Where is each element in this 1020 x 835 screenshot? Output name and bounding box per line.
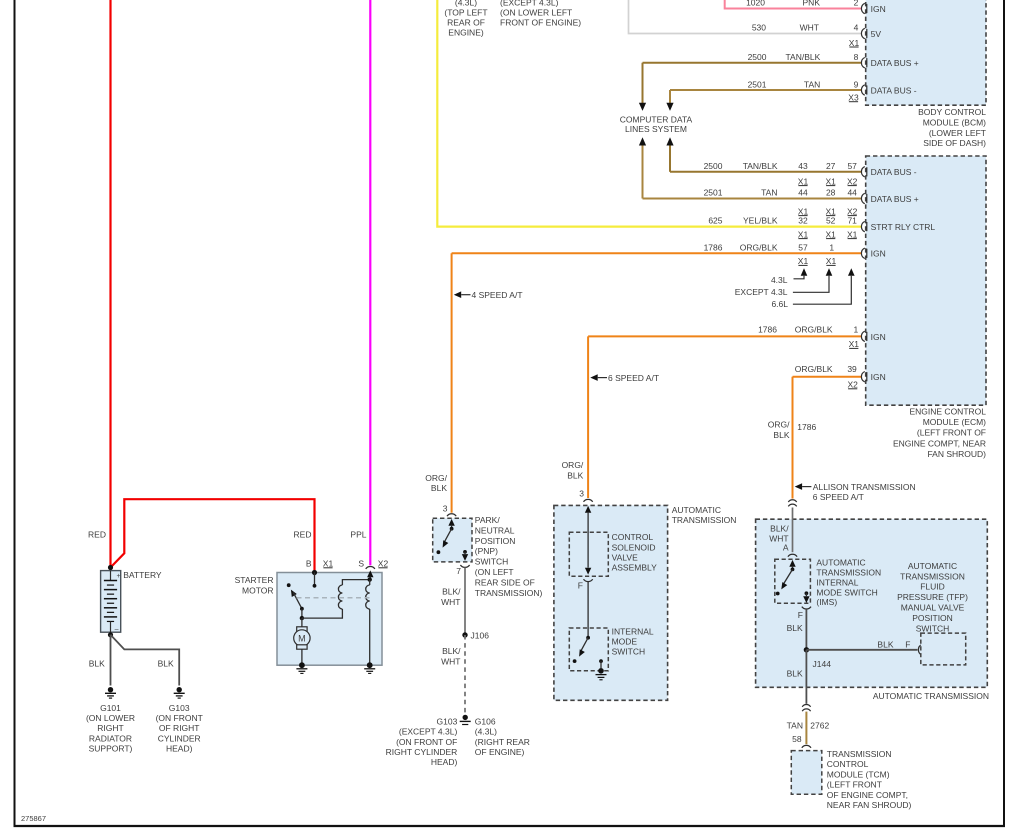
svg-text:71: 71 [847, 216, 857, 226]
svg-text:TAN/BLK: TAN/BLK [786, 52, 821, 62]
svg-text:(ON FRONT OF: (ON FRONT OF [396, 737, 457, 747]
svg-text:POSITION: POSITION [475, 536, 516, 546]
svg-text:SWITCH: SWITCH [612, 647, 646, 657]
svg-text:PARK/: PARK/ [475, 515, 501, 525]
svg-text:2500: 2500 [748, 52, 767, 62]
svg-text:44: 44 [798, 188, 808, 198]
svg-text:STRT RLY CTRL: STRT RLY CTRL [871, 222, 936, 232]
svg-text:DATA BUS -: DATA BUS - [871, 85, 917, 95]
wire ORG/BLK 1786 to ECM IGN allison [793, 376, 862, 378]
svg-text:X1: X1 [323, 559, 334, 569]
svg-text:6 SPEED A/T: 6 SPEED A/T [608, 373, 659, 383]
svg-text:BLK: BLK [567, 470, 583, 480]
svg-text:IGN: IGN [871, 4, 886, 14]
automatic transmission box 6 speed [554, 505, 668, 700]
svg-text:MOTOR: MOTOR [242, 585, 273, 595]
svg-text:INTERNAL: INTERNAL [612, 627, 654, 637]
svg-text:NEUTRAL: NEUTRAL [475, 525, 515, 535]
svg-text:BLK/: BLK/ [442, 587, 461, 597]
svg-text:BODY CONTROL: BODY CONTROL [918, 107, 986, 117]
svg-text:NEAR FAN SHROUD): NEAR FAN SHROUD) [827, 800, 912, 810]
node S winding junction [368, 577, 372, 581]
svg-text:TAN/BLK: TAN/BLK [743, 161, 778, 171]
internal mode switch box 6 speed [569, 628, 608, 671]
wire TAN 2762 to TCM pin 58 [805, 712, 807, 745]
svg-text:(TOP LEFT: (TOP LEFT [444, 8, 487, 18]
node J106 [462, 632, 467, 637]
internal mode switch contacts 6 speed [586, 636, 590, 640]
svg-text:MODULE (BCM): MODULE (BCM) [923, 117, 986, 127]
svg-text:1: 1 [853, 325, 858, 335]
starter S terminal connector [366, 566, 375, 568]
wire WHT 530 to BCM pin 4 5V [629, 0, 862, 34]
svg-text:ORG/: ORG/ [768, 420, 790, 430]
svg-text:X1: X1 [849, 339, 860, 349]
svg-text:IGN: IGN [871, 249, 886, 259]
automatic transmission internal mode switch IMS box [775, 559, 811, 603]
svg-text:PNK: PNK [803, 0, 821, 8]
mechanical link dashed [297, 597, 370, 599]
svg-text:4 SPEED A/T: 4 SPEED A/T [472, 290, 523, 300]
svg-text:X1: X1 [825, 176, 836, 186]
svg-text:TAN: TAN [761, 188, 777, 198]
svg-text:FRONT OF ENGINE): FRONT OF ENGINE) [500, 18, 581, 28]
wire TAN 2501 BCM pin 9 DATA BUS - [670, 89, 862, 91]
svg-text:HEAD): HEAD) [431, 757, 458, 767]
solenoid winding 1 [338, 585, 342, 609]
svg-text:BLK: BLK [158, 658, 174, 668]
svg-text:275867: 275867 [21, 814, 46, 823]
ground G101 [108, 687, 113, 692]
svg-text:44: 44 [847, 188, 857, 198]
svg-text:ORG/BLK: ORG/BLK [795, 325, 833, 335]
svg-text:RED: RED [294, 530, 312, 540]
svg-text:TRANSMISSION: TRANSMISSION [816, 568, 881, 578]
wire YEL/BLK 625 to ECM STRT RLY CTRL [437, 0, 861, 227]
note 4 SPEED A/T [454, 291, 461, 298]
svg-text:RIGHT: RIGHT [97, 723, 123, 733]
svg-text:28: 28 [826, 188, 836, 198]
wire BLK/WHT J106 to ground dashed [464, 635, 466, 713]
svg-text:A: A [783, 543, 789, 553]
svg-text:X1: X1 [798, 229, 809, 239]
note ALLISON TRANSMISSION 6 SPEED A/T [795, 483, 802, 490]
svg-text:OF ENGINE COMPT,: OF ENGINE COMPT, [827, 790, 908, 800]
svg-text:RIGHT CYLINDER: RIGHT CYLINDER [386, 747, 458, 757]
svg-text:REAR SIDE OF: REAR SIDE OF [475, 577, 535, 587]
svg-text:INTERNAL: INTERNAL [816, 577, 858, 587]
svg-text:ENGINE COMPT, NEAR: ENGINE COMPT, NEAR [893, 438, 986, 448]
svg-text:ORG/BLK: ORG/BLK [795, 364, 833, 374]
svg-text:X1: X1 [849, 38, 860, 48]
svg-text:BLK: BLK [787, 623, 803, 633]
wire through solenoid assembly [585, 506, 591, 513]
control solenoid valve assembly box [569, 532, 608, 576]
svg-text:4.3L: 4.3L [771, 275, 788, 285]
svg-text:CYLINDER: CYLINDER [158, 733, 201, 743]
svg-text:X1: X1 [798, 176, 809, 186]
svg-text:+: + [117, 573, 121, 580]
svg-text:X1: X1 [847, 229, 858, 239]
svg-text:OF ENGINE): OF ENGINE) [475, 747, 525, 757]
svg-text:DATA BUS -: DATA BUS - [871, 167, 917, 177]
svg-text:ORG/: ORG/ [425, 473, 447, 483]
svg-text:6.6L: 6.6L [771, 299, 788, 309]
svg-text:43: 43 [798, 161, 808, 171]
svg-text:39: 39 [847, 364, 857, 374]
svg-text:X1: X1 [798, 256, 809, 266]
svg-text:9: 9 [854, 79, 859, 89]
svg-text:VALVE: VALVE [612, 552, 638, 562]
park neutral position switch box [433, 518, 472, 562]
svg-text:X2: X2 [847, 380, 858, 390]
svg-text:(EXCEPT 4.3L): (EXCEPT 4.3L) [500, 0, 559, 8]
wire BLK battery to G101 [110, 635, 112, 686]
wire BLK/WHT to IMS pin A [792, 508, 794, 553]
svg-text:–: – [115, 627, 119, 634]
ground internal mode switch [598, 668, 604, 674]
svg-text:M: M [298, 634, 306, 644]
svg-text:BLK/: BLK/ [770, 524, 789, 534]
svg-text:57: 57 [847, 161, 857, 171]
svg-text:PRESSURE (TFP): PRESSURE (TFP) [897, 592, 968, 602]
ground G103 battery [177, 687, 182, 692]
svg-text:(4.3L): (4.3L) [455, 0, 477, 8]
svg-text:(EXCEPT 4.3L): (EXCEPT 4.3L) [399, 727, 458, 737]
inline connector break at TCM [802, 705, 810, 707]
svg-text:57: 57 [798, 242, 808, 252]
svg-text:3: 3 [443, 504, 448, 514]
svg-text:X1: X1 [826, 256, 837, 266]
svg-text:BLK: BLK [773, 430, 789, 440]
svg-text:DATA BUS +: DATA BUS + [871, 58, 919, 68]
svg-text:LINES SYSTEM: LINES SYSTEM [625, 124, 687, 134]
PNP pin 7 contact [463, 550, 467, 554]
svg-text:(4.3L): (4.3L) [475, 727, 497, 737]
svg-text:WHT: WHT [800, 23, 819, 33]
svg-text:4: 4 [854, 23, 859, 33]
svg-text:MODE: MODE [612, 637, 638, 647]
wire ORG/BLK 1786 to ECM IGN 6 speed [588, 335, 862, 337]
svg-text:MODE SWITCH: MODE SWITCH [816, 587, 877, 597]
svg-text:BLK: BLK [877, 639, 893, 649]
wire solenoid F to internal mode switch [587, 582, 589, 638]
svg-text:2501: 2501 [748, 79, 767, 89]
wire PNK 1020 to BCM pin 2 IGN [725, 0, 862, 9]
svg-text:F: F [798, 610, 803, 620]
svg-text:(IMS): (IMS) [816, 597, 837, 607]
svg-text:(LEFT FRONT: (LEFT FRONT [827, 780, 882, 790]
wire RED battery to starter B [111, 499, 315, 572]
svg-text:TRANSMISSION: TRANSMISSION [827, 749, 892, 759]
svg-text:TAN: TAN [804, 79, 820, 89]
motor M1 [301, 618, 303, 627]
pin F solenoid connector [584, 579, 593, 581]
allison automatic transmission box [756, 519, 988, 687]
svg-text:G103: G103 [437, 716, 458, 726]
svg-text:WHT: WHT [441, 597, 460, 607]
svg-text:5V: 5V [871, 29, 882, 39]
wire PPL to starter S [369, 0, 371, 565]
wire BLK battery to G103 [111, 635, 180, 686]
svg-text:F: F [905, 639, 910, 649]
wire ORG/BLK 1786 to ECM IGN 4 speed [452, 252, 862, 254]
wire RED battery positive vertical [109, 0, 111, 568]
svg-text:TRANSMISSION: TRANSMISSION [900, 571, 965, 581]
wire BLK J144 to TFP switch [806, 649, 917, 651]
svg-text:2762: 2762 [810, 721, 829, 731]
svg-text:ENGINE): ENGINE) [448, 28, 484, 38]
svg-text:G101: G101 [100, 703, 121, 713]
ground G103 G106 [463, 715, 468, 720]
svg-text:(LOWER LEFT: (LOWER LEFT [929, 128, 986, 138]
svg-text:(PNP): (PNP) [475, 546, 498, 556]
svg-text:1786: 1786 [758, 325, 777, 335]
svg-text:EXCEPT 4.3L: EXCEPT 4.3L [735, 287, 788, 297]
solenoid winding 2 [369, 580, 371, 585]
pin 7 PNP connector [460, 565, 469, 567]
svg-text:J144: J144 [813, 659, 832, 669]
svg-text:BATTERY: BATTERY [123, 570, 162, 580]
starter motor box [277, 573, 382, 666]
starter B terminal node [312, 570, 317, 575]
battery negative terminal node [108, 632, 113, 637]
svg-text:PPL: PPL [350, 530, 366, 540]
svg-text:F: F [578, 581, 583, 591]
svg-text:G103: G103 [169, 703, 190, 713]
svg-text:1786: 1786 [797, 422, 816, 432]
svg-text:6 SPEED A/T: 6 SPEED A/T [813, 492, 864, 502]
arrow down to computer data lines [639, 103, 646, 111]
svg-text:AUTOMATIC: AUTOMATIC [816, 558, 865, 568]
note EXCEPT 4.3L pointer [826, 268, 833, 275]
transmission control module TCM box [791, 751, 822, 795]
svg-text:(LEFT FRONT OF: (LEFT FRONT OF [917, 428, 986, 438]
note 6 SPEED A/T [590, 374, 597, 381]
svg-text:CONTROL: CONTROL [612, 532, 654, 542]
wire to pull-in winding [302, 609, 343, 618]
svg-text:58: 58 [792, 734, 802, 744]
svg-text:BLK: BLK [89, 658, 105, 668]
svg-text:HEAD): HEAD) [166, 744, 193, 754]
wire TAN/BLK 2500 from computer data lines to ECM DATA BUS - [666, 137, 673, 145]
svg-text:AUTOMATIC: AUTOMATIC [672, 505, 721, 515]
starter ground left [299, 662, 305, 668]
svg-text:(ON LOWER: (ON LOWER [86, 713, 135, 723]
wire BLK J144 down to TCM [805, 650, 807, 704]
svg-text:STARTER: STARTER [235, 575, 274, 585]
IMS switch contacts [789, 560, 795, 567]
svg-text:AUTOMATIC TRANSMISSION: AUTOMATIC TRANSMISSION [873, 691, 989, 701]
svg-text:TAN: TAN [787, 721, 803, 731]
svg-text:X2: X2 [847, 176, 858, 186]
wire BLK IMS F to J144 [805, 609, 807, 650]
svg-text:X3: X3 [848, 93, 859, 103]
svg-text:3: 3 [579, 489, 584, 499]
ECM box [866, 156, 986, 405]
svg-text:2: 2 [854, 0, 859, 8]
svg-text:B: B [306, 559, 312, 569]
svg-text:8: 8 [854, 52, 859, 62]
svg-text:RED: RED [88, 530, 106, 540]
starter ground right [367, 662, 373, 668]
svg-text:625: 625 [708, 216, 722, 226]
svg-text:ENGINE CONTROL: ENGINE CONTROL [909, 406, 986, 416]
inline connector break at allison [788, 500, 796, 502]
svg-text:SOLENOID: SOLENOID [612, 542, 656, 552]
transmission fluid pressure TFP switch box [921, 633, 966, 665]
svg-text:1: 1 [829, 242, 834, 252]
svg-text:TRANSMISSION: TRANSMISSION [672, 515, 737, 525]
svg-text:MODULE (TCM): MODULE (TCM) [827, 769, 890, 779]
svg-text:X2: X2 [378, 559, 389, 569]
svg-text:(ON LEFT: (ON LEFT [475, 567, 514, 577]
svg-text:POSITION: POSITION [912, 613, 953, 623]
svg-text:ORG/: ORG/ [562, 460, 584, 470]
svg-text:1020: 1020 [746, 0, 765, 8]
node starter junction [300, 616, 304, 620]
svg-text:ASSEMBLY: ASSEMBLY [612, 563, 658, 573]
battery B1 box [101, 571, 121, 633]
svg-text:27: 27 [826, 161, 836, 171]
svg-text:1786: 1786 [704, 242, 723, 252]
svg-text:(ON LOWER LEFT: (ON LOWER LEFT [500, 8, 572, 18]
svg-text:REAR OF: REAR OF [447, 18, 485, 28]
svg-text:AUTOMATIC: AUTOMATIC [908, 561, 957, 571]
svg-text:YEL/BLK: YEL/BLK [743, 216, 778, 226]
svg-text:ALLISON TRANSMISSION: ALLISON TRANSMISSION [813, 482, 916, 492]
battery internals [110, 571, 112, 581]
svg-text:MODULE (ECM): MODULE (ECM) [923, 417, 986, 427]
svg-text:J106: J106 [471, 631, 490, 641]
svg-text:(ON FRONT: (ON FRONT [156, 713, 203, 723]
svg-text:2500: 2500 [704, 161, 723, 171]
svg-text:TRANSMISSION): TRANSMISSION) [475, 588, 543, 598]
svg-text:SWITCH: SWITCH [475, 557, 509, 567]
svg-text:BLK: BLK [787, 669, 803, 679]
svg-text:2501: 2501 [704, 188, 723, 198]
svg-text:SWITCH: SWITCH [916, 623, 950, 633]
svg-text:MANUAL VALVE: MANUAL VALVE [901, 603, 965, 613]
svg-text:FLUID: FLUID [920, 582, 945, 592]
svg-text:ORG/BLK: ORG/BLK [740, 242, 778, 252]
svg-text:DATA BUS +: DATA BUS + [871, 194, 919, 204]
starter solenoid switch [287, 583, 291, 587]
svg-text:FAN SHROUD): FAN SHROUD) [927, 449, 986, 459]
svg-text:IGN: IGN [871, 372, 886, 382]
svg-text:BLK: BLK [431, 483, 447, 493]
svg-text:OF RIGHT: OF RIGHT [159, 723, 200, 733]
svg-text:CONTROL: CONTROL [827, 759, 869, 769]
IMS output contact [805, 591, 809, 595]
note 4.3L pointer [801, 268, 808, 275]
svg-text:32: 32 [798, 216, 808, 226]
internal mode switch ground contact [599, 659, 603, 663]
pin F IMS connector [802, 607, 811, 609]
svg-text:SUPPORT): SUPPORT) [89, 744, 133, 754]
svg-text:S: S [358, 559, 364, 569]
svg-text:(RIGHT REAR: (RIGHT REAR [475, 737, 530, 747]
svg-text:530: 530 [752, 23, 766, 33]
svg-text:G106: G106 [475, 716, 496, 726]
svg-text:WHT: WHT [441, 656, 460, 666]
svg-text:52: 52 [826, 216, 836, 226]
battery positive terminal node [108, 565, 113, 570]
body control module BCM box [866, 0, 986, 105]
node J144 [804, 647, 809, 652]
svg-text:7: 7 [456, 566, 461, 576]
svg-text:X1: X1 [825, 229, 836, 239]
svg-text:BLK/: BLK/ [442, 646, 461, 656]
note 6.6L pointer [848, 268, 855, 275]
svg-text:RADIATOR: RADIATOR [89, 733, 132, 743]
PNP switch contacts [448, 519, 454, 526]
wire TAN/BLK 2500 BCM pin 8 DATA BUS + [643, 62, 862, 64]
svg-text:SIDE OF DASH): SIDE OF DASH) [923, 138, 986, 148]
wire BLK/WHT PNP to J106 [464, 568, 466, 636]
wire TAN 2501 from computer data lines to ECM DATA BUS + [639, 137, 646, 145]
svg-text:IGN: IGN [871, 332, 886, 342]
